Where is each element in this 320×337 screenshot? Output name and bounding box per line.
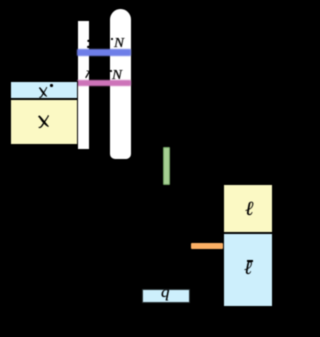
label chiN asterisk + N (magenta band) — [110, 70, 113, 72]
antilepton box (cyan, ell-bar) — [223, 233, 273, 308]
label chi — [37, 114, 51, 129]
quark box (cyan) — [142, 289, 190, 303]
label chi*N asterisk + N (blue band) — [111, 38, 114, 40]
orange level bar — [191, 243, 223, 249]
chi* box (excited dark matter state) — [10, 81, 78, 100]
label chi*N fragments for blue band (chi tips on bar edge) — [84, 36, 92, 50]
label ell-bar ell — [244, 259, 252, 278]
lepton box (yellow, script ell) — [223, 184, 273, 232]
node chi*N level band (blue) — [77, 49, 131, 56]
label chi* — [38, 86, 49, 99]
chi box (dark matter ground state) — [10, 99, 78, 145]
wire: right white capsule column — [110, 9, 131, 159]
label q — [161, 285, 170, 301]
wire: left white bar (continuum column) — [78, 21, 88, 149]
label chiN fragments for magenta band (chi arm on bar edge) — [82, 68, 92, 84]
label ell — [245, 199, 253, 219]
green level bar — [163, 147, 170, 185]
node chiN level band (magenta) — [77, 80, 131, 87]
label ell-bar overline — [247, 260, 253, 262]
